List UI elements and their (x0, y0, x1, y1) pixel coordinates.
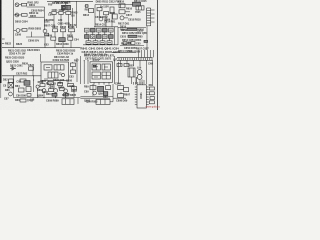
resistor R903 (150, 97, 154, 100)
wire right block bottom (120, 46, 144, 50)
transformer T803 (128, 68, 135, 77)
label bottom cluster (46, 93, 67, 97)
capacitor C802 (59, 9, 66, 14)
resistor R861 (117, 64, 122, 67)
wire transformer down (146, 26, 148, 50)
label top-left extra (30, 10, 44, 18)
capacitor C887 (64, 93, 77, 97)
wire left drop (13, 76, 15, 98)
resistor R803 (66, 11, 78, 14)
resistor R801 (19, 3, 27, 6)
wire bottom rails center (80, 96, 113, 98)
resistor R831 (71, 63, 76, 67)
resistor R895 (118, 86, 124, 90)
label right block row3 (120, 35, 143, 38)
wire drop x54 (53, 14, 55, 28)
diode D884 bottom cluster (52, 93, 70, 96)
IC block grid row3 (86, 41, 112, 44)
wire stub x31.6 (26, 32, 45, 37)
IC block grid row1 (85, 28, 114, 32)
diode D806 (97, 8, 102, 11)
wire module drops to cluster (38, 81, 68, 98)
label row center under bus (56, 49, 76, 55)
IC822 inner (54, 65, 64, 70)
transistor Q881 (42, 89, 46, 98)
label bottom center-right (84, 86, 108, 104)
IC901 left pins (135, 87, 137, 105)
vertical IC block frame (90, 62, 113, 83)
transistor Q885 (36, 85, 49, 94)
resistor R862 (124, 64, 129, 67)
label module right (69, 59, 79, 78)
resistor R904 (149, 101, 154, 104)
label under module box (46, 82, 63, 85)
marks bottom-left extra (5, 89, 31, 96)
IC871 sub d (102, 72, 110, 79)
wire main left vertical (13, 0, 15, 48)
right page border line (157, 0, 159, 110)
transistor Q891 (93, 91, 105, 95)
label cluster dark (16, 80, 30, 85)
regulator IC803 (136, 6, 144, 10)
capacitor C801 (52, 9, 59, 14)
diode bridge D804 (59, 38, 65, 42)
resistor R881 (38, 81, 45, 87)
cluster small marks x84-90 (85, 5, 89, 8)
label left low cluster (5, 57, 29, 66)
marks inside module box (44, 67, 62, 79)
resistor R884 bottom cluster (49, 87, 77, 92)
wire verticals right of module (73, 58, 77, 82)
transistor Q801 (15, 3, 19, 7)
label mid fan right (136, 48, 149, 51)
diode block D812 (119, 4, 125, 8)
wire verticals right of center module (115, 56, 119, 84)
wire q802 out (28, 16, 44, 18)
label right of center module (113, 58, 118, 61)
label top right cluster (118, 1, 133, 26)
label TP (20, 99, 34, 103)
label grid row2 side (91, 36, 107, 39)
label bottom mid cluster (37, 79, 78, 97)
transistor Q806 (120, 16, 128, 20)
IC block grid row2 (85, 35, 114, 39)
resistor R892 (106, 86, 111, 90)
wire module top-left stub (40, 54, 42, 62)
label conn bottom (128, 64, 142, 69)
label right mid rows (121, 29, 144, 46)
wire IC drops (136, 77, 144, 84)
label far right mid (148, 63, 154, 87)
resistor R806 (20, 29, 27, 32)
resistor R809 (51, 37, 56, 40)
diode block D813 (119, 10, 130, 14)
connector CN802 pin row rails (117, 58, 153, 61)
wire top bus (47, 0, 93, 2)
label row left under bus (8, 50, 27, 56)
label top-left lower (15, 20, 28, 23)
capacitor C855 (123, 42, 135, 45)
transistor Q803 (14, 29, 20, 33)
resistor R808 (68, 26, 75, 32)
capacitor C807 (52, 26, 59, 32)
resistor R882 (58, 83, 65, 90)
wire vertical x44 (44, 7, 46, 30)
wire top-left horizontal (27, 6, 45, 8)
resistor R802 (14, 14, 28, 17)
IC871 sub c (92, 72, 100, 79)
wire bottom bus (14, 97, 81, 99)
wire bus y4.6 (95, 4, 130, 6)
label center row y33-45 (44, 35, 69, 47)
label bottom-left cluster (15, 85, 26, 102)
label mid-top cluster (44, 24, 77, 27)
wire drops under connector (121, 60, 153, 84)
grain overlay (0, 0, 1, 1)
resistor R832 (71, 70, 76, 74)
capacitor C823 (9, 79, 14, 82)
capacitor C841 mid cluster (45, 33, 80, 41)
label row mid under bus (27, 49, 40, 52)
background paper (0, 0, 160, 110)
wire drops mid-top (95, 5, 112, 27)
resistor R901 (149, 87, 154, 90)
connector CN802 pins (119, 58, 152, 61)
capacitor C895 (124, 88, 129, 92)
wire stub x78 (77, 98, 79, 104)
capacitor C826 (19, 88, 25, 92)
wire drop x61 (60, 14, 62, 28)
transistor Q883 (64, 89, 68, 98)
IC901 main body (137, 85, 146, 108)
capacitor C881 (48, 82, 56, 89)
label top bus small (48, 3, 53, 16)
pin ticks above IC (133, 82, 142, 85)
wire relay drops (63, 1, 68, 11)
wire bus y75.8 (2, 75, 41, 77)
fuse F802 (130, 2, 141, 6)
wire right drops top-center (73, 1, 77, 28)
resistor R823 (20, 76, 34, 92)
resistor R856 (144, 40, 148, 42)
transistor Q804 (99, 17, 111, 21)
capacitor C811 (104, 12, 116, 15)
transistor Q882 (54, 89, 58, 98)
IC871 sub b (102, 64, 110, 70)
resistor R896 (118, 92, 124, 98)
crystal X801 (62, 99, 74, 105)
IC891 block (96, 99, 110, 104)
squiggle marks beside caps (49, 13, 75, 18)
coil L861 (137, 70, 142, 80)
label top right extra2 (120, 18, 141, 28)
wire drop x68.3 (67, 14, 69, 28)
label right block row1 (120, 28, 145, 31)
capacitor C808 (60, 26, 67, 32)
wire verticals x114 x118 (115, 27, 119, 45)
wire horizontal y27.6 right (118, 27, 146, 29)
resistor R810 (67, 34, 74, 40)
IC871 sub a (92, 64, 100, 70)
relay RY801 (62, 5, 71, 10)
label top-center bottom extra (44, 19, 63, 22)
marks inside center module (93, 59, 108, 77)
marks far-left bottom (4, 97, 9, 100)
diode D807 (83, 9, 94, 18)
label mid-left rows (5, 33, 23, 46)
wire h y26.8 top mid (94, 26, 118, 28)
label bottom right-mid (115, 83, 131, 103)
wire transformer drops (132, 77, 143, 84)
wire verticals left of center module (80, 56, 88, 84)
diode D891 (98, 86, 108, 95)
resistor R827 (26, 87, 31, 92)
diode D821 (10, 64, 23, 70)
label bottom mid2 (30, 99, 59, 103)
IC823 inner (48, 72, 58, 78)
transformer T802 taps (151, 10, 155, 22)
module box frame (41, 62, 69, 81)
label right block row4 (122, 39, 142, 42)
wire bus y52.3 (112, 51, 136, 53)
wire fan verticals right (139, 50, 154, 57)
transistor Q821 (9, 92, 13, 96)
transistor Q805 (43, 29, 47, 48)
label right block row2 (122, 32, 147, 35)
wire bus y47.7 (2, 47, 81, 49)
IC901 right pins (146, 87, 148, 105)
transistor Q802 (15, 13, 19, 17)
label top mid extra (85, 8, 109, 26)
resistor R902 (149, 92, 154, 95)
resistor R891 (90, 86, 96, 90)
capacitor C814 (104, 14, 117, 24)
bridge rectifier D822 (8, 82, 14, 88)
capacitor C822 (28, 64, 35, 76)
transistor Q822 (61, 73, 64, 76)
wire stubs bottom cluster (51, 85, 74, 98)
label top-center row (52, 2, 69, 5)
wire link y98 right (113, 97, 126, 99)
wire grid connects (87, 32, 111, 41)
transformer T802 ladder (147, 8, 151, 26)
junction dots bottom bus (13, 75, 66, 98)
capacitor C882 (68, 84, 76, 89)
left page edge bar (0, 0, 2, 83)
wire mid verticals bottom (93, 84, 113, 98)
junction dots center module (84, 60, 115, 61)
wires column drops center (55, 32, 71, 48)
center module bottom pins (94, 82, 109, 84)
IC821 inner (44, 65, 52, 70)
tick marks left margin (2, 39, 5, 44)
inductor L802 (110, 7, 114, 13)
marks right of bottom IC block (110, 98, 113, 102)
label left low extra (3, 72, 28, 87)
wire junction row y44.8 (83, 44, 118, 45)
